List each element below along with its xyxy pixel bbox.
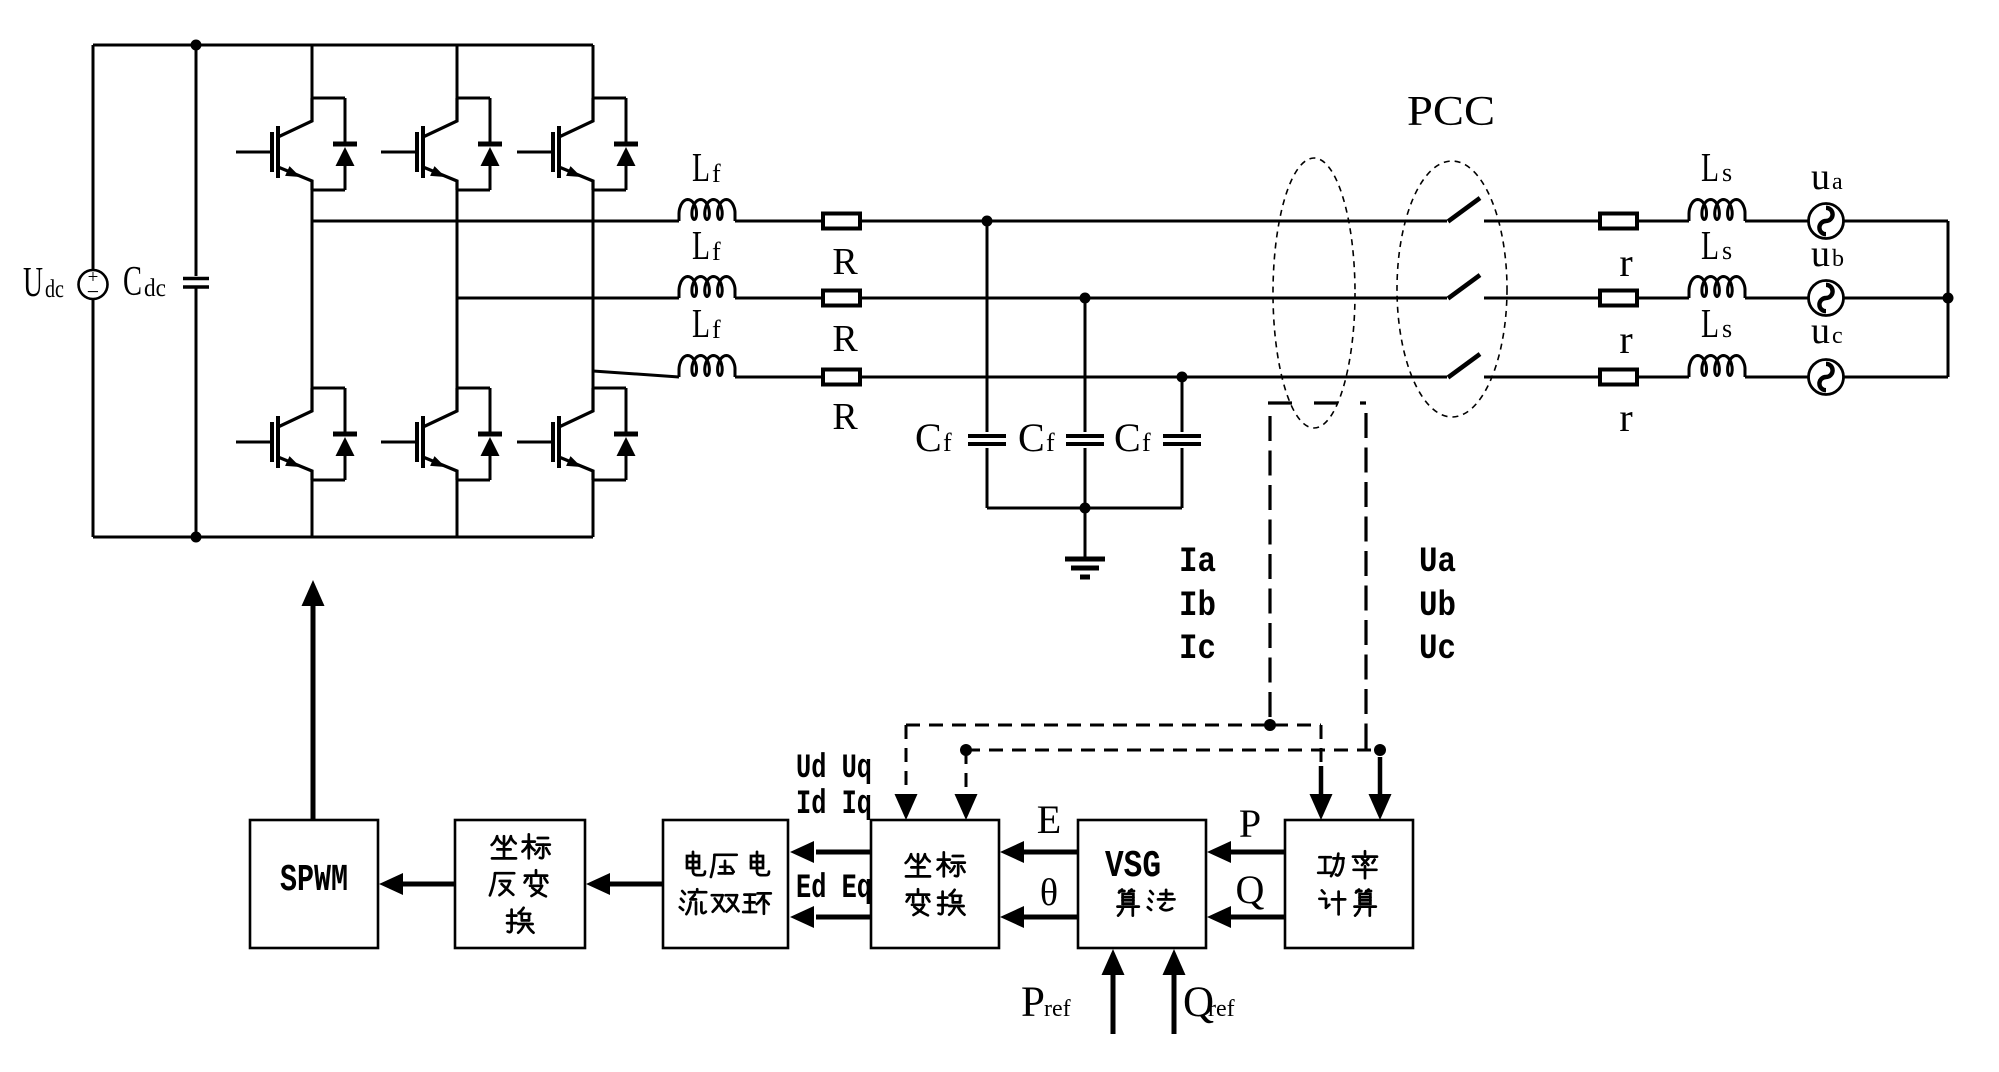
- svg-text:C: C: [1114, 415, 1141, 460]
- svg-text:u: u: [1811, 233, 1830, 275]
- svg-text:VSG: VSG: [1105, 845, 1161, 888]
- svg-text:C: C: [1018, 415, 1045, 460]
- svg-text:θ: θ: [1040, 872, 1058, 914]
- svg-text:dc: dc: [45, 276, 64, 303]
- svg-text:R: R: [832, 318, 858, 360]
- svg-text:f: f: [712, 159, 721, 188]
- svg-text:s: s: [1722, 158, 1732, 187]
- svg-text:f: f: [712, 237, 721, 266]
- svg-text:a: a: [1832, 169, 1843, 195]
- svg-text:s: s: [1722, 236, 1732, 265]
- svg-text:L: L: [1701, 222, 1719, 268]
- svg-text:ref: ref: [1208, 996, 1235, 1022]
- svg-text:f: f: [1046, 428, 1055, 457]
- svg-text:L: L: [1701, 300, 1719, 346]
- svg-text:Ua: Ua: [1419, 542, 1456, 582]
- svg-text:Ic: Ic: [1179, 629, 1216, 669]
- svg-text:L: L: [1701, 144, 1719, 190]
- svg-text:dc: dc: [144, 275, 166, 302]
- svg-text:c: c: [1832, 323, 1843, 349]
- svg-text:E: E: [1037, 797, 1061, 842]
- svg-text:P: P: [1239, 801, 1261, 846]
- svg-text:Ed Eq: Ed Eq: [796, 870, 872, 908]
- svg-text:C: C: [915, 415, 942, 460]
- svg-text:−: −: [87, 279, 99, 304]
- svg-text:b: b: [1832, 246, 1844, 272]
- svg-text:L: L: [692, 300, 710, 346]
- svg-text:L: L: [692, 144, 710, 190]
- svg-text:SPWM: SPWM: [280, 859, 348, 902]
- svg-text:Ud Uq: Ud Uq: [796, 750, 872, 788]
- svg-text:f: f: [943, 428, 952, 457]
- svg-text:r: r: [1619, 240, 1632, 285]
- svg-text:f: f: [1142, 428, 1151, 457]
- svg-text:r: r: [1619, 395, 1632, 440]
- svg-text:PCC: PCC: [1407, 89, 1495, 135]
- svg-text:r: r: [1619, 317, 1632, 362]
- svg-text:R: R: [832, 241, 858, 283]
- svg-text:Ia: Ia: [1179, 542, 1216, 582]
- svg-text:f: f: [712, 315, 721, 344]
- svg-text:Ub: Ub: [1419, 586, 1456, 626]
- svg-text:R: R: [832, 396, 858, 438]
- svg-text:Q: Q: [1236, 867, 1265, 912]
- svg-text:s: s: [1722, 314, 1732, 343]
- svg-text:u: u: [1811, 310, 1830, 352]
- svg-text:Id Iq: Id Iq: [796, 786, 872, 824]
- svg-text:L: L: [692, 222, 710, 268]
- svg-text:Ib: Ib: [1179, 586, 1216, 626]
- svg-text:ref: ref: [1044, 996, 1071, 1022]
- svg-text:C: C: [123, 259, 142, 305]
- svg-text:Uc: Uc: [1419, 629, 1456, 669]
- svg-text:P: P: [1021, 979, 1045, 1026]
- svg-text:U: U: [23, 260, 43, 306]
- svg-text:u: u: [1811, 156, 1830, 198]
